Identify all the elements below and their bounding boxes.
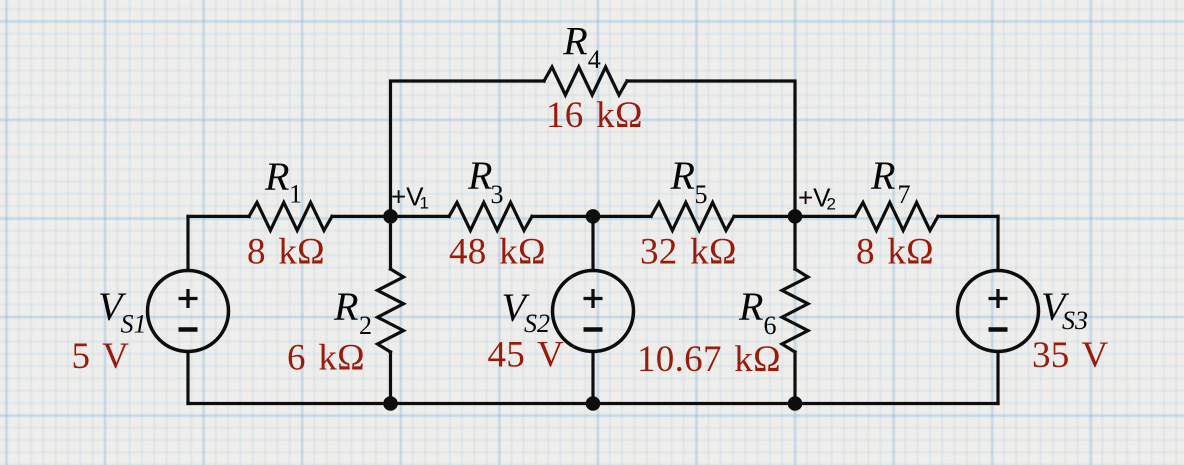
svg-text:45 V: 45 V [488, 335, 565, 376]
svg-text:R: R [562, 19, 587, 64]
svg-text:R: R [333, 284, 358, 329]
svg-text:6: 6 [764, 311, 777, 340]
svg-text:S3: S3 [1062, 306, 1088, 335]
svg-text:7: 7 [898, 180, 911, 209]
svg-text:5: 5 [695, 180, 708, 209]
svg-text:R: R [870, 153, 895, 198]
svg-text:10.67 kΩ: 10.67 kΩ [637, 339, 781, 380]
svg-text:32 kΩ: 32 kΩ [640, 232, 737, 273]
svg-text:1: 1 [289, 180, 302, 209]
svg-text:4: 4 [588, 45, 601, 74]
svg-text:8 kΩ: 8 kΩ [247, 232, 325, 273]
svg-text:2: 2 [359, 311, 372, 340]
svg-text:R: R [264, 154, 289, 199]
svg-text:35 V: 35 V [1032, 335, 1109, 376]
svg-text:48 kΩ: 48 kΩ [449, 232, 546, 273]
svg-text:8 kΩ: 8 kΩ [856, 232, 934, 273]
svg-text:R: R [670, 153, 695, 198]
svg-text:R: R [467, 153, 492, 198]
svg-text:S1: S1 [121, 310, 147, 339]
svg-text:2: 2 [827, 195, 836, 214]
svg-text:6 kΩ: 6 kΩ [287, 338, 365, 379]
svg-text:5 V: 5 V [72, 336, 130, 377]
svg-text:3: 3 [491, 180, 504, 209]
svg-text:1: 1 [420, 194, 429, 213]
svg-text:16 kΩ: 16 kΩ [546, 95, 643, 136]
svg-text:R: R [738, 284, 763, 329]
